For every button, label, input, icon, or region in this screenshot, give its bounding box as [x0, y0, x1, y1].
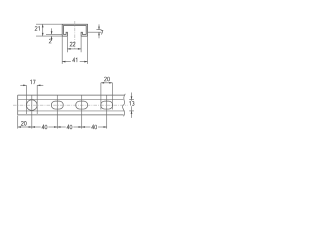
dim 40 b arrows: [57, 126, 60, 128]
dim 41 extension line right: [87, 37, 89, 64]
label 2: [49, 39, 51, 43]
dim 20 pitch dimension line: [18, 126, 32, 128]
label 40 a: [42, 125, 47, 129]
dim 22 arrow left: [67, 48, 70, 50]
profile outline U1: [62, 24, 87, 36]
label 21: [35, 27, 39, 31]
dim 2 arrow down: [51, 31, 53, 34]
dim 7 arrow down: [98, 27, 100, 30]
dim 13 ticks: [129, 98, 134, 100]
dim 21 extension line top: [36, 23, 62, 25]
dim 2 extension line foot top: [46, 33, 62, 35]
centre extension line hole3: [81, 95, 83, 129]
dim 21 arrow up: [42, 24, 44, 27]
dim 7 arrow up: [98, 32, 100, 35]
dim 22 dimension line: [67, 48, 81, 50]
label 20 pitch: [21, 121, 26, 125]
dim 40 b dimension line (broken by label): [57, 126, 65, 128]
rail inner line top: [18, 98, 124, 100]
label 20 slot: [104, 77, 109, 81]
label 13: [129, 101, 134, 105]
dim 2 arrow up: [51, 36, 53, 39]
dim 7 extension line foot top: [88, 31, 102, 33]
hole 1 round d17: [26, 100, 37, 111]
dim 20 slot arrows: [101, 82, 104, 84]
dim 40 a arrows: [32, 126, 35, 128]
dim 13 arrow down: [131, 96, 133, 99]
dim 20 pitch arrows: [18, 126, 21, 128]
hole 2 slot: [51, 101, 63, 109]
dim 21 dimension line: [42, 24, 44, 36]
centerline horizontal: [13, 104, 128, 106]
dim 21 extension line bottom: [36, 35, 62, 37]
rail bottom edge: [18, 114, 124, 116]
rail top edge: [18, 94, 125, 96]
label 40 c: [92, 125, 97, 129]
dim 41 arrow left: [62, 61, 65, 63]
dim 21 arrow down: [42, 33, 44, 36]
dim 40 c dimension line (broken by label): [82, 126, 91, 128]
dim 22 extension line right: [80, 37, 82, 53]
rail inner line bottom: [18, 110, 125, 112]
dim 13 arrow up: [131, 111, 133, 114]
hole 3 slot: [76, 101, 88, 109]
label 41: [73, 58, 77, 62]
dim 17 arrow right: [23, 84, 26, 86]
hole 4 slot: [101, 101, 113, 109]
dim 13 dimension line tails: [131, 93, 133, 101]
extension line rail left edge: [17, 116, 19, 129]
label 7: [101, 30, 103, 34]
dim 40 a dimension line (broken by label): [32, 126, 41, 128]
label 17: [30, 80, 35, 84]
dim 7 dimension line tails: [98, 24, 100, 29]
centre extension line hole4: [106, 95, 108, 129]
label 40 b: [67, 125, 72, 129]
dim 17 extension lines: [25, 85, 27, 114]
dim 17 arrow left: [37, 84, 40, 86]
dim 41 dimension line (broken by label): [62, 61, 71, 63]
rail left edge: [17, 95, 19, 115]
centerline vertical: [74, 21, 76, 49]
centre extension line hole1: [31, 95, 33, 129]
dim 41 extension line left: [61, 37, 63, 64]
dim 40 c arrows: [82, 126, 85, 128]
dim 7 extension line lip top: [96, 29, 101, 31]
dim 20 slot dimension line: [101, 82, 113, 84]
dim 22 arrow right: [78, 48, 81, 50]
label 22: [70, 42, 75, 46]
dim 17 dimension line tails: [20, 84, 26, 86]
dim 41 arrow right: [84, 61, 87, 63]
centre extension line hole2: [56, 95, 58, 129]
dim 22 extension line left: [66, 37, 68, 53]
dim 20 slot extension lines: [100, 83, 102, 110]
break line right end: [122, 94, 125, 117]
dim 2 dimension line tails: [51, 28, 53, 34]
